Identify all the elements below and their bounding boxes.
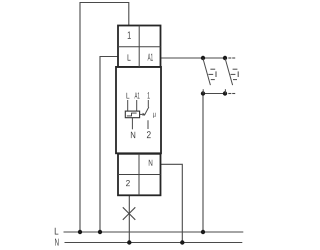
junction dot button S1 bottom	[201, 91, 205, 95]
internal wire coil to N	[131, 118, 133, 130]
label N (bus)	[55, 239, 58, 246]
junction dot L-bus / push-button wire	[201, 230, 205, 234]
internal label A1	[135, 93, 140, 99]
terminal label A1	[148, 54, 153, 61]
terminal label L	[128, 54, 131, 60]
junction dot button S1 top	[201, 56, 205, 60]
internal wire A1 to coil	[136, 100, 138, 111]
dashed continuation bottom	[228, 93, 235, 95]
wire L-bus to terminal 1 (top loop)	[80, 3, 129, 233]
terminal label N	[149, 160, 152, 166]
device main body	[116, 67, 161, 153]
junction dot N-bus / N terminal wire	[180, 240, 184, 244]
junction dot button S2 bottom	[223, 91, 227, 95]
internal label N	[131, 132, 135, 138]
bottom block dividers	[118, 174, 161, 176]
internal label 1	[148, 92, 150, 98]
internal label 2	[147, 131, 151, 138]
label mu	[153, 113, 156, 118]
terminal label 2	[126, 180, 130, 186]
wire push buttons to L-bus	[202, 94, 204, 233]
internal wire L to coil	[127, 100, 129, 111]
push button S2 contact	[225, 59, 232, 86]
dashed continuation top	[228, 57, 235, 59]
internal wire 1 to contact	[147, 100, 149, 107]
wire terminal 2 to lamp to N-bus	[128, 195, 130, 242]
junction dot button S2 top	[223, 56, 227, 60]
device bottom terminal block	[118, 154, 161, 196]
N bus line	[65, 242, 243, 244]
step waveform inside coil box	[127, 113, 137, 116]
actuator link with arrow	[140, 113, 143, 115]
wire A1 terminal to push buttons	[161, 57, 226, 59]
push button S2 cap	[231, 69, 239, 79]
wire N terminal to N-bus	[161, 164, 183, 242]
push button S1 contact	[203, 59, 210, 86]
push button S2 lower stub	[224, 89, 226, 93]
contact mu (angled)	[144, 107, 149, 116]
wire push buttons bottom rail	[203, 93, 225, 95]
junction dot L-bus / wire to 1	[78, 230, 82, 234]
label L (bus)	[55, 228, 59, 235]
device top terminal block	[118, 26, 161, 67]
junction dot N-bus / lamp wire	[127, 240, 131, 244]
internal wire contact to 2	[147, 120, 149, 129]
internal label L	[126, 93, 129, 99]
top block dividers	[118, 46, 161, 48]
terminal label 1	[128, 32, 131, 39]
coil box (timer)	[125, 111, 139, 118]
lamp E1 (cross symbol)	[123, 207, 136, 220]
push button S1 cap	[208, 69, 216, 79]
L bus line	[64, 231, 244, 233]
wire L-bus to L terminal	[100, 57, 118, 233]
junction dot L-bus / wire to L	[98, 230, 102, 234]
push button S1 lower stub	[202, 89, 204, 93]
